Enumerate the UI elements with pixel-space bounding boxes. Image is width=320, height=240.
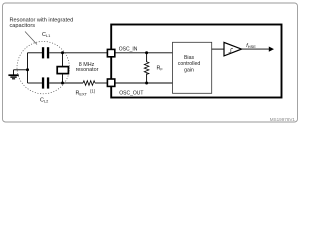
capacitor CL1 xyxy=(42,47,49,58)
svg-text:Bias: Bias xyxy=(184,55,194,61)
svg-text:resonator: resonator xyxy=(76,67,99,73)
ground xyxy=(8,70,18,79)
label: Resonator with integrated capacitors xyxy=(10,17,74,28)
node: ground tee junction xyxy=(26,68,29,71)
label: 8 MHz resonator xyxy=(76,62,99,73)
wire: bottom wire from CL2 to REXT xyxy=(49,82,83,84)
resonator module boundary (dashed circle) xyxy=(17,41,69,93)
wire: crystal bottom lead xyxy=(62,74,64,83)
svg-text:CL1: CL1 xyxy=(42,32,50,38)
wire: ground wire xyxy=(14,69,28,71)
svg-text:OSC_OUT: OSC_OUT xyxy=(119,91,143,97)
svg-text:controlled: controlled xyxy=(178,61,201,67)
node: RF top junction xyxy=(145,51,148,54)
wire: left vertical link xyxy=(27,53,29,83)
wire: bias block to amplifier xyxy=(212,48,224,50)
wire: crystal top lead xyxy=(62,53,64,66)
svg-text:capacitors: capacitors xyxy=(10,23,36,29)
wire: bottom left segment xyxy=(28,82,43,84)
bias controlled gain block xyxy=(173,42,212,93)
svg-text:RF: RF xyxy=(157,66,164,72)
crystal resonator xyxy=(57,67,68,74)
amplifier U1 xyxy=(224,42,242,56)
output arrow xyxy=(242,47,275,52)
wire: REXT to OSC_OUT pad xyxy=(95,82,107,84)
wire: RF bottom lead xyxy=(146,73,148,83)
node: top junction xyxy=(61,51,64,54)
node: RF bottom junction xyxy=(145,82,148,85)
resistor RF xyxy=(144,62,149,75)
wire: top wire from CL1 to OSC_IN pad xyxy=(49,52,107,54)
node: bottom junction xyxy=(61,82,64,85)
wire: OSC_IN to bias block xyxy=(115,52,173,54)
svg-text:OSC_IN: OSC_IN xyxy=(119,46,138,52)
MCU chip boundary xyxy=(111,25,281,98)
svg-text:fHSE: fHSE xyxy=(246,43,256,49)
pin OSC_IN pad xyxy=(107,49,114,56)
wire: top left segment xyxy=(28,52,43,54)
wire: RF top lead xyxy=(146,53,148,62)
resistor REXT xyxy=(83,81,95,86)
callout line xyxy=(25,32,37,45)
svg-text:CL2: CL2 xyxy=(40,98,48,104)
wire: OSC_OUT to bias block xyxy=(115,82,173,84)
pin OSC_OUT pad xyxy=(107,79,114,86)
svg-text:gain: gain xyxy=(184,67,194,73)
capacitor CL2 xyxy=(42,77,49,88)
svg-text:MS19978V1: MS19978V1 xyxy=(270,117,296,122)
